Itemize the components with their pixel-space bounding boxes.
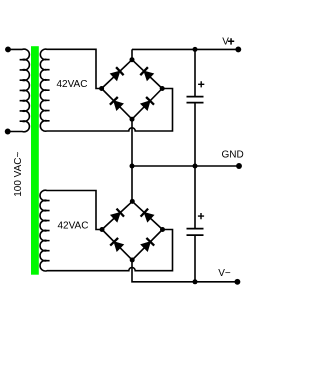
svg-text:42VAC: 42VAC <box>58 221 89 232</box>
svg-text:V−: V− <box>218 268 231 279</box>
svg-text:100 VAC~: 100 VAC~ <box>13 152 24 197</box>
svg-text:V: V <box>222 37 229 48</box>
svg-text:GND: GND <box>222 149 244 160</box>
svg-text:42VAC: 42VAC <box>57 79 88 90</box>
